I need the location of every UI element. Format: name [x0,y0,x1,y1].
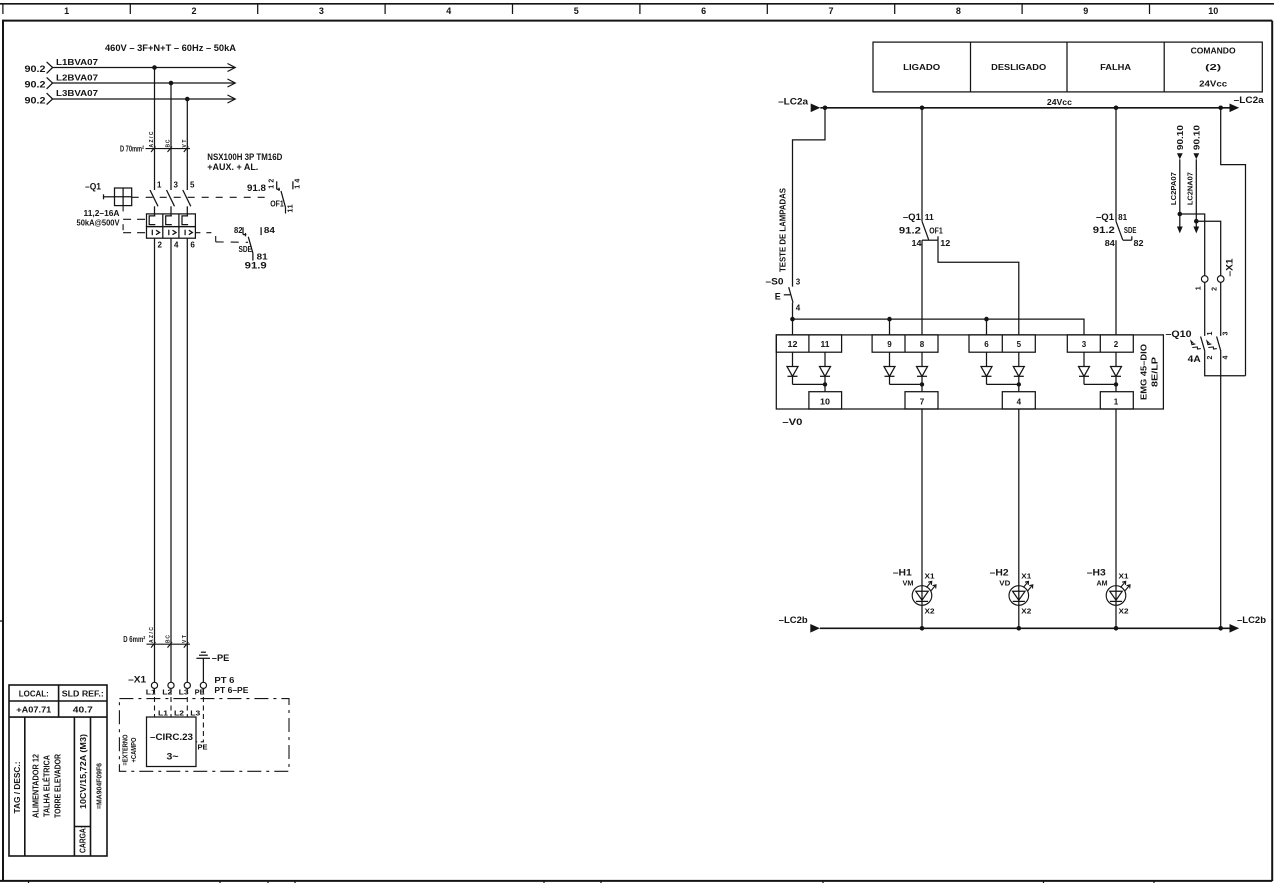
terminal row group 3-2 [1067,335,1133,352]
Q1 pole blade link dashed [132,196,271,198]
diode D12 [787,352,798,384]
wire LC2NA07 [1195,159,1197,226]
bus label -LC2a left [778,97,809,107]
lamp H2 label [990,568,1011,588]
terminal X1-1 [1195,276,1208,291]
source ref 90.2 L1 [25,62,53,74]
svg-text:82: 82 [1134,239,1145,248]
Q1 pole blade 1 [150,190,158,206]
svg-text:–LC2a: –LC2a [1234,95,1265,105]
cable marker D 6mm2 [123,635,190,648]
svg-text:NSX100H 3P TM16D: NSX100H 3P TM16D [207,152,282,162]
svg-text:8: 8 [956,6,961,16]
node bus dot cH [1114,106,1119,111]
wire test line [793,319,1085,335]
svg-text:11: 11 [925,213,935,222]
svg-text:14: 14 [912,239,923,248]
terminal box 10 [809,392,842,409]
aux OF1 label [270,200,284,209]
terminal row group 9-8 [872,335,938,352]
svg-text:5: 5 [574,6,579,16]
bus LC2a left arrow [811,104,821,113]
svg-text:X2: X2 [925,609,935,616]
wire L1 down to X1 [154,238,156,682]
wire L3 down to X1 [186,238,188,682]
phase wire L1 [53,64,236,72]
node LC2b dot H2 [1017,626,1022,631]
svg-text:2: 2 [1114,340,1119,349]
svg-text:24Vcc: 24Vcc [1199,80,1228,89]
wire H1 to bus [921,601,923,628]
svg-text:–X1: –X1 [1225,259,1235,277]
header text COMANDO [1191,47,1236,89]
svg-text:11: 11 [288,204,295,212]
terminal X1 L2 [162,682,174,696]
wire join pair 1 [793,382,828,386]
svg-text:10: 10 [1208,6,1218,16]
Q1 magnetic element 3 [185,230,192,236]
Q1 thermal boxes [147,214,196,227]
svg-text:–Q1: –Q1 [85,182,101,192]
svg-text:84: 84 [1105,239,1116,248]
svg-text:LC2PA07: LC2PA07 [1171,172,1178,205]
svg-text:X1: X1 [925,574,935,581]
svg-text:5: 5 [190,180,195,189]
svg-text:2: 2 [1211,287,1218,291]
table text MA904F09F6 (rotated) [97,763,104,809]
svg-text:–S0: –S0 [766,277,784,287]
cable core label BC (bottom) [166,635,172,643]
pin 12 [788,340,799,349]
svg-text:3~: 3~ [167,752,179,762]
svg-text:4: 4 [796,304,801,313]
svg-text:AM: AM [1097,581,1108,588]
svg-text:–X1: –X1 [128,675,146,685]
diode D3 [1079,352,1090,384]
table text TORRE ELEVADOR (rotated) [54,754,63,818]
svg-text:–LC2b: –LC2b [779,615,809,625]
external field dash-dot box [119,699,289,772]
ruler top line [0,3,1274,5]
label TESTE DE LAMPADAS (rotated) [778,187,787,272]
diode module V0 box [776,335,1163,409]
wire label L1BVA07 [56,58,99,67]
svg-text:–Q1: –Q1 [903,212,921,222]
switch S0 pin 4 [796,304,801,313]
terminal X1 L1 [146,682,158,696]
svg-text:OF1: OF1 [929,227,943,236]
header text LIGADO [903,63,940,72]
svg-text:6: 6 [984,340,989,349]
lamp H1 [912,574,936,616]
svg-text:L2BVA07: L2BVA07 [56,73,99,82]
signal arrow LC2NA07 down [1193,227,1199,234]
svg-text:84: 84 [264,226,276,235]
svg-text:2: 2 [191,6,196,16]
node tap L2 [169,81,174,86]
svg-text:ALIMENTADOR 12: ALIMENTADOR 12 [32,754,41,818]
svg-text:2: 2 [1207,356,1214,360]
node test dot cE [984,317,989,322]
svg-text:X2: X2 [1021,609,1031,616]
svg-text:3: 3 [319,6,324,16]
bus LC2a right arrow [1230,104,1240,113]
svg-text:460V – 3F+N+T – 60Hz – 50kA: 460V – 3F+N+T – 60Hz – 50kA [105,43,237,53]
svg-text:BC: BC [166,635,172,643]
wire L2 dashed into CIRC [170,689,172,718]
svg-text:PT 6–PE: PT 6–PE [214,686,249,695]
svg-text:=MA904F09F6: =MA904F09F6 [97,763,104,809]
Q1 pole blade 2 [167,190,175,206]
cable core label BC (top) [166,139,172,147]
svg-text:6: 6 [701,6,706,16]
Q1 thermal element 1 [149,206,155,224]
wire OF1 14 down to pin 8 [921,240,923,335]
bus LC2a [820,107,1230,109]
aux OF1 pin 14 [293,179,302,190]
lamp H1 label [893,568,914,588]
ground -PE [196,652,229,682]
svg-text:90.2: 90.2 [25,64,46,74]
svg-text:–LC2a: –LC2a [778,97,809,107]
wire SDE 84 down to pin 2 [1115,240,1117,335]
svg-text:50kA@500V: 50kA@500V [77,219,121,228]
svg-text:PE: PE [198,745,208,752]
svg-text:VT: VT [182,635,188,643]
pin 11 [821,340,831,349]
breaker Q10 pole 1-2 [1191,332,1214,360]
wire join pair 4 [1084,382,1118,386]
svg-text:FALHA: FALHA [1100,63,1131,72]
svg-text:3: 3 [1082,340,1087,349]
pin 2 [158,240,163,249]
signal arrow 90.10 LC2PA07 [1176,124,1185,159]
Q1 magnetic element 2 [169,230,176,236]
svg-text:91.2: 91.2 [1093,225,1115,235]
svg-text:X1: X1 [1021,574,1031,581]
table text ALIMENTADOR 12 (rotated) [32,754,41,818]
pin 1 [157,180,162,189]
svg-text:11: 11 [821,340,831,349]
load CIRC.23 box [147,717,197,767]
svg-text:90.10: 90.10 [1176,124,1185,150]
phase wire L3 [53,95,236,103]
wire pin1 to H3 [1115,409,1117,601]
switch S0 pin 3 [796,278,801,287]
svg-text:4: 4 [446,6,451,16]
aux SDE label [239,245,253,254]
svg-text:TALHA ELÉTRICA: TALHA ELÉTRICA [43,755,52,817]
node tap L3 [185,97,190,102]
pin 5 [190,180,195,189]
svg-text:1: 1 [1207,332,1214,336]
svg-text:(2): (2) [1205,63,1222,72]
wire L2 drop to Q1 [170,83,172,190]
svg-text:VT: VT [182,140,188,148]
ruler column numbers [64,6,1218,16]
svg-text:TESTE DE LAMPADAS: TESTE DE LAMPADAS [778,187,787,272]
svg-text:TAG / DESC.:: TAG / DESC.: [13,762,22,814]
svg-text:D 6mm²: D 6mm² [123,635,145,644]
svg-text:SLD REF.:: SLD REF.: [62,690,104,699]
svg-text:1: 1 [1195,286,1202,290]
pin 5 [1017,340,1022,349]
svg-text:8: 8 [920,340,925,349]
svg-text:12: 12 [940,239,951,248]
svg-text:VD: VD [999,581,1010,588]
wire label LC2PA07 (rotated) [1171,172,1178,205]
bus label -LC2b right [1237,615,1267,625]
breaker Q10 label [1166,329,1202,364]
aux SDE ref 91.9 [245,260,267,270]
source ref 90.2 L3 [25,93,53,105]
svg-text:90.10: 90.10 [1192,124,1201,150]
contact Q1 OF1 label [899,212,951,248]
frame left mid tick [0,620,3,622]
svg-text:+A07.71: +A07.71 [16,706,52,715]
svg-text:X1: X1 [1119,574,1129,581]
node LC2b dot H1 [920,626,925,631]
wire right feed from LC2a [1221,108,1246,376]
svg-text:–H3: –H3 [1087,568,1106,578]
title block top ticks [29,881,1155,883]
aux SDE blade [248,237,253,253]
bus LC2b [820,627,1231,629]
svg-text:9: 9 [887,340,892,349]
phase wire L2 [53,79,236,87]
aux OF1 ref 91.8 [247,183,266,193]
aux OF1 blade [281,191,286,207]
CIRC.23 pin L2 [174,711,184,718]
wire join pair 2 [890,382,925,386]
wire L3 drop to Q1 [186,99,188,190]
table text 40.7 [73,706,94,715]
svg-text:LIGADO: LIGADO [903,63,940,72]
title table box [9,685,107,856]
terminal box 1 [1100,392,1133,409]
table text +A07.71 [16,706,52,715]
svg-text:3: 3 [796,278,801,287]
svg-text:8E/LP: 8E/LP [1151,356,1160,387]
svg-text:PT 6: PT 6 [214,676,235,685]
pin 2 [1114,340,1119,349]
aux SDE pin 81 [253,253,268,262]
aux OF1 pin 12 [268,179,280,191]
diode D2 [1111,352,1122,392]
cable name PT 6 [214,676,249,695]
svg-text:BC: BC [166,139,172,147]
pin 6 [190,240,195,249]
bus LC2b right arrow [1230,624,1240,633]
wire drop to pin 9 [889,319,891,335]
cable core label AZ/C (bottom) [149,627,155,643]
svg-text:+CAMPO: +CAMPO [131,737,138,762]
svg-text:40.7: 40.7 [73,706,94,715]
node bus dot cB [823,106,828,111]
Q1 thermal element 3 [182,206,188,224]
svg-text:91.2: 91.2 [899,226,921,236]
wire L1 dashed into CIRC [154,689,156,718]
svg-text:1: 1 [64,6,69,16]
table text TALHA ELETRICA (rotated) [43,755,52,817]
svg-text:4A: 4A [1188,354,1202,364]
breaker Q1 label [85,182,101,192]
diode D5 [1013,352,1024,392]
svg-text:=EXTERNO: =EXTERNO [123,734,130,765]
svg-text:91.8: 91.8 [247,183,266,193]
node bus dot cD [920,106,925,111]
svg-text:L3BVA07: L3BVA07 [56,89,99,98]
wire join pair 3 [987,382,1022,386]
svg-text:9: 9 [1083,6,1088,16]
wire bus to OF1 [921,108,923,222]
svg-text:4: 4 [1223,356,1230,360]
svg-text:6: 6 [190,240,195,249]
aux SDE link dashes [195,233,248,243]
diode D6 [981,352,992,384]
contact Q1 SDE blade [1116,221,1132,240]
contact Q1 OF1 blade [922,221,938,240]
header text FALHA [1100,63,1131,72]
svg-text:90.2: 90.2 [25,80,46,90]
wire branch to X1-1 [1180,214,1205,276]
Q1 thermal element 2 [166,206,172,224]
pin 8 [920,340,925,349]
terminal X1-2 [1211,276,1224,291]
table text SLD REF [62,690,104,699]
svg-text:L1BVA07: L1BVA07 [56,58,99,67]
aux SDE pin 82 [234,226,246,236]
svg-text:D 70mm²: D 70mm² [120,145,144,154]
table text 10CV (rotated) [79,734,88,809]
pin 3 [174,180,179,189]
svg-text:4: 4 [1017,398,1022,407]
switch S0 label [766,277,784,287]
breaker Q10 pole 3-4 [1207,332,1230,360]
pin 9 [887,340,892,349]
wire bus jog to S0 [793,108,826,287]
svg-text:3: 3 [174,180,179,189]
terminal row group 6-5 [969,335,1035,352]
table text CARGA (rotated) [78,826,87,853]
wire L1 drop to Q1 [154,68,156,191]
svg-text:–H1: –H1 [893,568,912,578]
CIRC.23 pin L3 [190,711,200,718]
wire bus to SDE [1115,108,1117,222]
table text TAG / DESC (rotated) [13,762,22,814]
Q1 magnetic boxes [147,227,196,239]
module label V0 [782,417,802,427]
bus label -LC2b left [779,615,809,625]
svg-text:VM: VM [903,581,914,588]
svg-text:X2: X2 [1119,609,1129,616]
svg-text:OF1: OF1 [270,200,284,209]
wire S0 to test line [792,303,794,335]
svg-text:91.9: 91.9 [245,260,267,270]
svg-text:5: 5 [1017,340,1022,349]
node test dot cC [887,317,892,322]
svg-text:10: 10 [820,398,831,407]
diode D11 [820,352,831,392]
wire label LC2NA07 (rotated) [1188,172,1195,205]
cable core label AZ/C (top) [149,131,155,147]
node LC2b dot Q10 [1218,626,1223,631]
cable core label VT (bottom) [182,635,188,643]
terminal box 7 [905,392,938,409]
node tap L1 [152,65,157,70]
Q1 actuator link dashes [123,206,146,233]
svg-text:–Q10: –Q10 [1166,329,1192,339]
terminal X1 L3 [179,682,191,696]
node S0 test junction [790,317,795,322]
CIRC.23 pin L1 [158,711,168,718]
table text LOCAL [19,690,49,699]
wire PE dashed into CIRC [196,689,208,752]
svg-text:2: 2 [158,240,163,249]
svg-text:E: E [775,292,781,302]
wire L2 down to X1 [170,238,172,682]
svg-text:TORRE ELEVADOR: TORRE ELEVADOR [54,754,63,818]
supply title text [105,43,237,53]
svg-text:LOCAL:: LOCAL: [19,690,49,699]
wire H3 to bus [1115,601,1117,628]
aux OF1 pin 11 [286,204,295,213]
svg-text:3: 3 [1223,332,1230,336]
node LC2b dot H3 [1114,626,1119,631]
wire pin4 to H2 [1018,409,1020,601]
svg-text:–Q1: –Q1 [1096,212,1114,222]
svg-text:SDE: SDE [239,245,253,254]
signal arrow LC2PA07 down [1177,227,1183,234]
bus label 24Vcc [1047,98,1073,107]
breaker type text [207,152,282,172]
diode D8 [917,352,928,392]
svg-text:1: 1 [1114,398,1119,407]
Q1 pole blade 3 [183,190,191,206]
svg-text:82: 82 [234,226,243,235]
node bus dot right [1218,106,1223,111]
bus label -LC2a right [1234,95,1265,105]
terminal X1 PE [195,682,207,696]
wire pin7 to H1 [921,409,923,601]
ruler ticks [3,4,1150,14]
node LC2NA07 branch [1194,219,1199,224]
svg-text:10CV/15,72A (M3): 10CV/15,72A (M3) [79,734,88,809]
source ref 90.2 L2 [25,77,53,89]
svg-text:7: 7 [828,6,833,16]
aux SDE pin 84 [261,226,275,235]
wire L3 dashed into CIRC [186,689,188,718]
terminal strip X1 label (rotated) [1225,259,1235,277]
svg-text:90.2: 90.2 [25,95,46,105]
bus LC2b left arrow [810,624,820,633]
Q1 magnetic element 1 [152,230,159,236]
pin 3 [1082,340,1087,349]
module type EMG 45-DIO 8E/LP (rotated) [1140,344,1160,400]
contact Q1 SDE label [1093,212,1144,248]
svg-text:+AUX. + AL.: +AUX. + AL. [207,162,258,172]
svg-text:COMANDO: COMANDO [1191,47,1236,56]
signal arrow 90.10 LC2NA07 [1192,124,1201,159]
terminal strip X1 label [128,675,146,685]
wire H2 to bus [1018,601,1020,628]
svg-text:12: 12 [788,340,799,349]
terminal row group 12-11 [776,335,841,352]
Q1 rating text [77,209,121,228]
svg-text:4: 4 [174,240,179,249]
svg-text:SDE: SDE [1124,226,1137,235]
svg-text:–H2: –H2 [990,568,1009,578]
